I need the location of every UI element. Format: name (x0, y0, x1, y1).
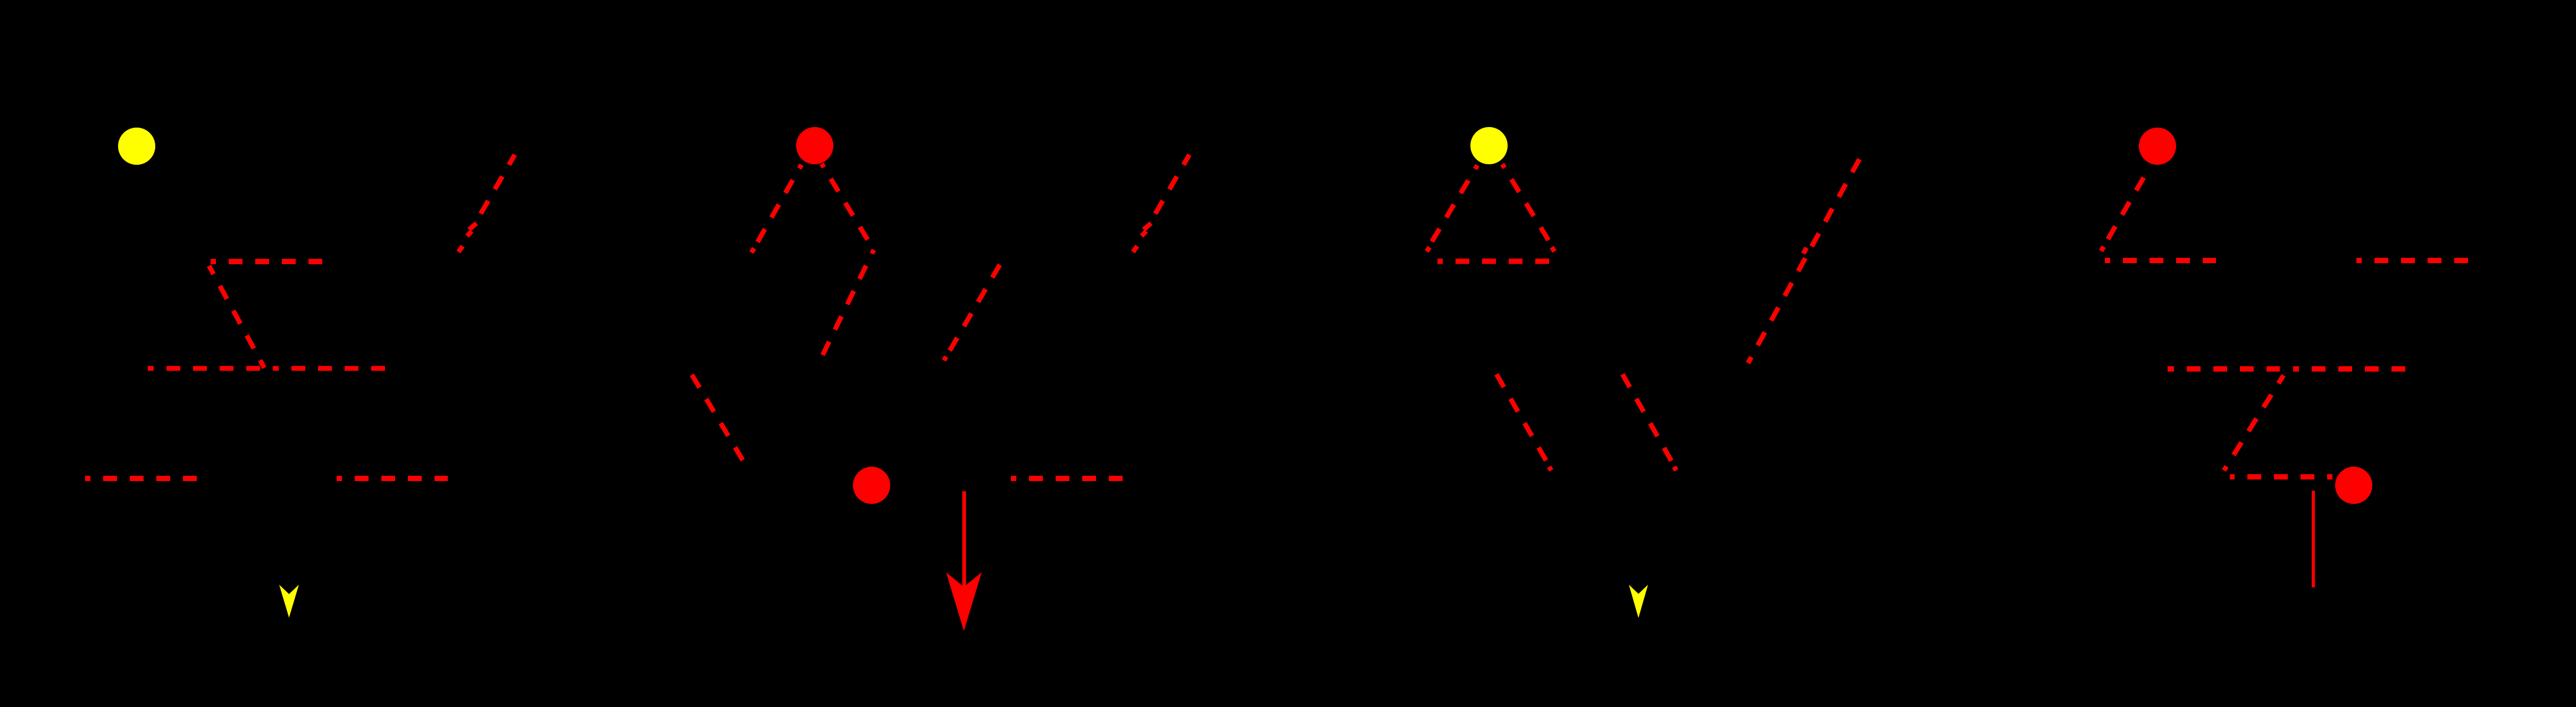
wire: panel2 middle diagonal dashed (943, 265, 1000, 361)
node: panel2 red arrow head (946, 573, 982, 632)
node: panel3 yellow agent dot (1470, 127, 1508, 164)
wire: panel2 doubled dash fragment a (1144, 223, 1151, 230)
wire: panel2 left V leg dashed (752, 165, 801, 251)
wire: panel1 upper-right diagonal dashed trajectory (481, 155, 515, 214)
wire: panel1 doubled dash fragment a (469, 223, 476, 230)
wire: panel3 triangle left side dashed (1426, 165, 1477, 251)
node: panel4 red agent dot top (2139, 128, 2176, 165)
wire: panel4 middle horizontal dashed trajectory right part (2293, 366, 2406, 372)
wire: panel4 solid vertical red line (2312, 491, 2315, 587)
wire: panel1 middle horizontal dashed trajectory right part (273, 366, 386, 371)
wire: panel1 middle horizontal dashed trajectory left part (148, 366, 261, 371)
wire: panel2 left leg end dot (751, 248, 754, 252)
wire: panel3 right short diagonal dashed (1622, 374, 1677, 470)
wire: panel3 triangle right side dashed (1502, 164, 1555, 251)
wire: panel3 right short diagonal end dot (1674, 467, 1676, 470)
wire: panel4 upper-right horizontal dashed trajectory (2356, 258, 2468, 263)
wire: panel1 diagonal bottom dash (458, 246, 463, 252)
wire: panel1 doubled dash fragment b (467, 231, 472, 236)
wire: panel4 lower diagonal dashed (2224, 375, 2284, 470)
wire: panel2 upper-right diagonal dashed trajectory (1156, 155, 1190, 214)
wire: panel4 diagonal from top dot dashed (2101, 178, 2144, 251)
wire: panel4 upper-left horizontal dashed trajectory (2105, 258, 2216, 263)
wire: panel1 bottom-left horizontal dashed trajectory (85, 476, 197, 481)
node: panel3 yellow heading arrow (1629, 585, 1648, 618)
wire: panel3 long diagonal dashed trajectory (1748, 155, 1862, 363)
wire: panel2 bend segment down-left (819, 250, 874, 361)
wire: panel2 diagonal bottom dash (1133, 246, 1138, 252)
wire: panel2 lower-left diagonal dashed (692, 375, 748, 469)
wire: panel4 top diagonal end dot (2101, 247, 2104, 251)
wire: panel2 middle diagonal end dot (944, 357, 946, 360)
wire: panel4 middle horizontal dashed trajectory left part (2168, 366, 2280, 372)
node: panel1 yellow agent dot (118, 128, 155, 165)
wire: panel3 triangle left side end dot (1427, 247, 1429, 251)
node: panel1 yellow heading arrow (279, 585, 299, 618)
wire: panel4 bottom horizontal dashed trajectory (2230, 474, 2332, 479)
node: panel4 red agent dot bottom (2335, 467, 2372, 504)
wire: panel2 right V leg dashed (822, 164, 874, 250)
node: panel2 red agent dot bottom (853, 467, 890, 504)
wire: panel3 triangle base dashed (1437, 259, 1549, 264)
wire: panel1 diagonal connector down-right (209, 266, 264, 368)
wire: panel1 upper horizontal dashed trajectory (211, 259, 323, 264)
wire: panel3 long diagonal extra dash (1803, 248, 1806, 254)
node: panel2 red arrow shaft (963, 491, 966, 589)
wire: panel2 doubled dash fragment b (1142, 231, 1147, 236)
node: panel2 red agent dot top (796, 127, 833, 164)
wire: panel3 left short diagonal dashed (1496, 374, 1552, 470)
wire: panel1 bottom-right horizontal dashed trajectory (337, 476, 448, 481)
wire: panel3 triangle right side end dot (1552, 247, 1554, 251)
wire: panel3 left short diagonal end dot (1549, 467, 1551, 470)
wire: panel2 bottom horizontal dashed trajectory (1011, 476, 1123, 481)
